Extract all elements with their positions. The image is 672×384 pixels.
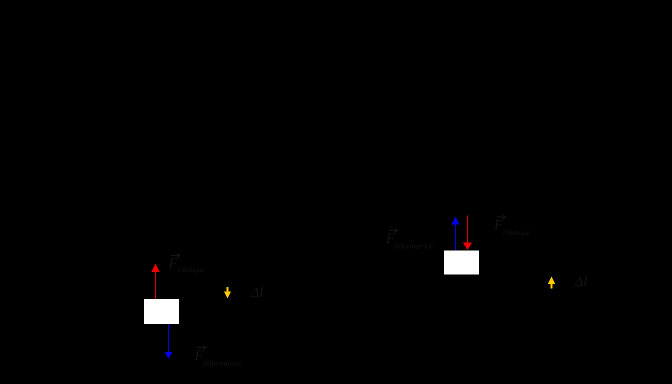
- force arrow F_deformatrice right (blue, upward): [451, 217, 459, 251]
- label delta-l right: [574, 275, 587, 290]
- svg-text:déformatrice: déformatrice: [203, 359, 242, 368]
- force arrow F_elastique right (red, downward): [463, 216, 472, 251]
- label F_elastique left (vector F with hat + subscript): [168, 254, 206, 275]
- left mass box M1: [144, 299, 179, 324]
- delta-l arrow left (yellow, downward): [224, 287, 231, 299]
- svg-text:Δl: Δl: [250, 286, 263, 301]
- right mass box M2: [444, 251, 479, 275]
- svg-text:élastique: élastique: [503, 228, 531, 237]
- label F_deformatrice left: [194, 346, 242, 368]
- svg-text:déformatrice: déformatrice: [394, 242, 433, 251]
- label F_elastique right: [493, 215, 531, 237]
- force arrow F_elastique left (red, upward): [151, 264, 159, 300]
- svg-text:F: F: [168, 256, 179, 272]
- force arrow F_deformatrice left (blue, downward): [164, 324, 172, 359]
- delta-l arrow right (yellow, upward): [548, 277, 555, 289]
- svg-text:élastique: élastique: [178, 265, 206, 274]
- label F_deformatrice right: [385, 229, 433, 251]
- svg-text:Δl: Δl: [574, 275, 587, 290]
- label delta-l left: [250, 286, 263, 301]
